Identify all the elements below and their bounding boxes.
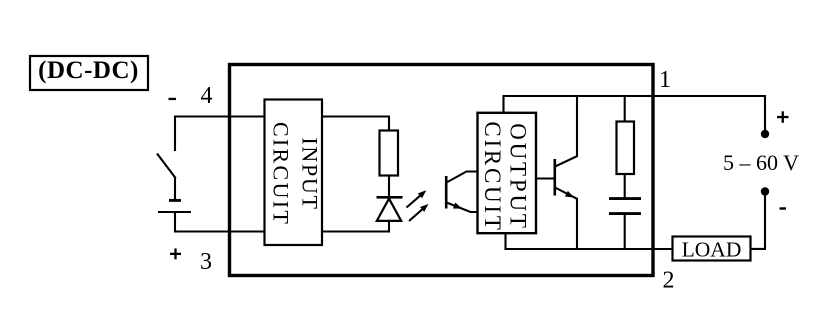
svg-text:INPUT: INPUT: [298, 137, 323, 210]
svg-text:(DC-DC): (DC-DC): [38, 57, 139, 84]
svg-text:5 – 60 V: 5 – 60 V: [723, 150, 799, 175]
svg-text:1: 1: [659, 67, 671, 93]
svg-text:CIRCUIT: CIRCUIT: [269, 122, 294, 226]
svg-text:3: 3: [200, 249, 212, 275]
svg-text:LOAD: LOAD: [682, 237, 742, 261]
svg-text:CIRCUIT: CIRCUIT: [480, 121, 505, 232]
svg-text:4: 4: [201, 83, 213, 109]
svg-text:2: 2: [663, 267, 675, 293]
svg-text:OUTPUT: OUTPUT: [506, 123, 531, 231]
